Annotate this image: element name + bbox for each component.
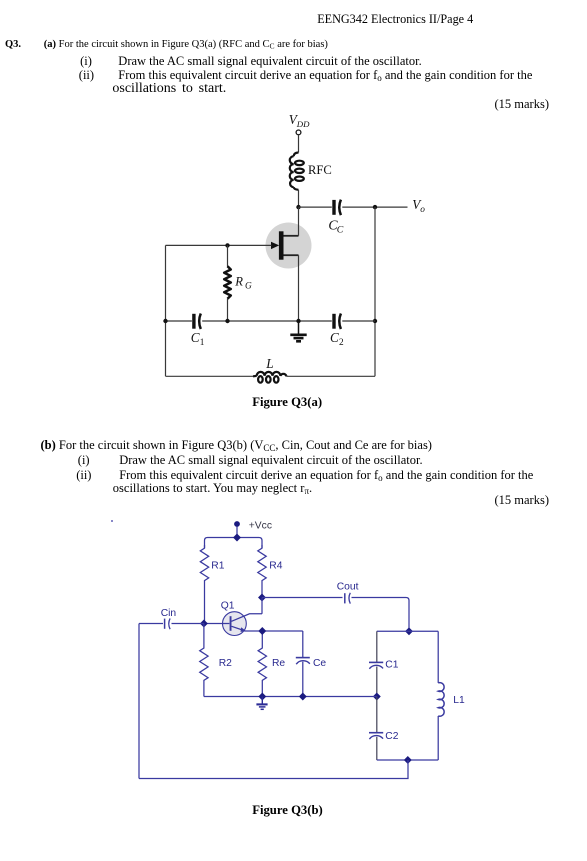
- resistor Re: [258, 631, 266, 697]
- wire tank bottom rail: [377, 759, 438, 761]
- header text: [317, 13, 473, 25]
- svg-text:1: 1: [200, 338, 205, 348]
- node gate junction: [225, 243, 229, 247]
- wire left rail: [138, 624, 140, 779]
- resistor RG: [224, 245, 231, 321]
- svg-text:Cin: Cin: [161, 608, 177, 619]
- label L: [265, 356, 273, 371]
- wire C2 bottom lead: [376, 737, 378, 760]
- wire VDD to RFC: [298, 135, 300, 152]
- svg-text:L1: L1: [453, 695, 465, 706]
- transistor Q JFET: [266, 207, 312, 321]
- resistor R2: [200, 624, 208, 697]
- svg-text:Cout: Cout: [337, 582, 359, 593]
- (b)(ii): [76, 469, 91, 482]
- svg-text:Q1: Q1: [221, 601, 235, 612]
- (a) intro line: [44, 40, 328, 51]
- node tank top junction: [405, 627, 413, 635]
- svg-text:C: C: [191, 330, 200, 345]
- wire gate: [166, 244, 272, 246]
- node bottom left junction: [163, 319, 167, 323]
- capacitor C1: [369, 662, 383, 668]
- svg-text:L: L: [265, 356, 273, 371]
- node drain junction: [296, 205, 300, 209]
- label VDD: [289, 112, 310, 129]
- wire collector riser: [261, 598, 263, 614]
- (b)(i): [78, 454, 90, 467]
- wire tank top rail: [377, 630, 438, 632]
- node output junction: [373, 205, 377, 209]
- svg-text:+Vcc: +Vcc: [249, 520, 272, 531]
- label C1: [385, 660, 398, 671]
- wire Ce top lead: [302, 631, 304, 657]
- wire RFC to drain node: [298, 190, 300, 207]
- stray ink speck: [111, 520, 113, 522]
- wire left rail: [165, 245, 167, 376]
- wire top rail: [205, 538, 263, 549]
- wire Cc to Vo: [342, 206, 407, 208]
- figure a caption: [252, 396, 322, 409]
- transistor Q1: [223, 612, 303, 636]
- label Re: [272, 658, 285, 669]
- svg-text:C1: C1: [385, 660, 398, 671]
- svg-text:o: o: [420, 205, 425, 215]
- node source junction: [296, 319, 300, 323]
- svg-text:G: G: [245, 282, 252, 292]
- svg-text:Re: Re: [272, 658, 285, 669]
- svg-text:R1: R1: [211, 561, 224, 572]
- (b) marks: [495, 494, 550, 507]
- wire L rail right: [287, 375, 375, 377]
- node Vcc rail junction: [233, 534, 241, 542]
- node tank bottom junction: [404, 756, 412, 764]
- wire base to Cin: [172, 623, 204, 625]
- wire C2 top lead: [376, 697, 378, 733]
- label R4: [269, 561, 282, 572]
- wire C1 bottom lead: [376, 667, 378, 697]
- node collector junction: [258, 594, 266, 602]
- wire base: [204, 623, 230, 625]
- wire Cout to tank: [352, 598, 410, 632]
- node base junction: [200, 620, 208, 628]
- Q3 label: [5, 40, 21, 51]
- label R1: [211, 561, 224, 572]
- label C2: [330, 330, 344, 348]
- label Vo: [412, 197, 425, 215]
- node VDD terminal: [296, 130, 301, 135]
- label RFC: [308, 163, 332, 177]
- label Cin: [161, 608, 177, 619]
- node +Vcc terminal: [234, 521, 240, 527]
- capacitor C2: [334, 314, 341, 330]
- wire collector node to Cout: [262, 597, 343, 599]
- svg-text:2: 2: [339, 338, 344, 348]
- label Cc: [328, 218, 343, 236]
- wire emitter bottom rail: [204, 696, 377, 698]
- node right rail bottom junction: [373, 319, 377, 323]
- wire drain node to Cc: [299, 206, 332, 208]
- wire bottom rail right: [342, 320, 375, 322]
- resistor R4: [258, 545, 266, 598]
- capacitor Ce: [296, 658, 310, 665]
- (a)(i): [80, 55, 92, 68]
- label C1: [191, 330, 205, 348]
- (a) marks: [495, 98, 550, 111]
- svg-text:R4: R4: [269, 561, 282, 572]
- capacitor Cc: [334, 200, 341, 216]
- (b) intro line: [41, 439, 432, 453]
- label RG: [234, 275, 252, 292]
- label Q1: [221, 601, 235, 612]
- label C2: [385, 731, 398, 742]
- svg-text:Ce: Ce: [313, 658, 326, 669]
- capacitor C1: [194, 314, 201, 330]
- label Ce: [313, 658, 326, 669]
- node Ce bottom junction: [299, 693, 307, 701]
- label L1: [453, 695, 465, 706]
- wire Ce bottom lead: [302, 662, 304, 697]
- svg-text:C2: C2: [385, 731, 398, 742]
- svg-text:DD: DD: [296, 119, 310, 129]
- wire bottom rail left: [166, 320, 192, 322]
- capacitor Cin: [165, 618, 171, 629]
- node RG bottom junction: [225, 319, 229, 323]
- svg-text:R2: R2: [219, 658, 232, 669]
- ground: [256, 697, 267, 710]
- label R2: [219, 658, 232, 669]
- label +Vcc: [249, 520, 272, 531]
- wire L rail left: [166, 375, 254, 377]
- svg-text:RFC: RFC: [308, 163, 332, 177]
- svg-text:R: R: [234, 275, 243, 289]
- inductor L: [253, 372, 287, 383]
- resistor R1: [200, 545, 208, 624]
- figure b caption: [252, 804, 323, 817]
- wire Vcc stem: [236, 527, 238, 538]
- wire Cin to left rail: [139, 623, 163, 625]
- ground: [290, 321, 306, 341]
- wire bottom rail mid: [202, 320, 332, 322]
- node emitter junction: [258, 627, 266, 635]
- inductor L1: [438, 631, 444, 760]
- capacitor C2: [369, 733, 383, 739]
- capacitor Cout: [345, 593, 351, 604]
- (a)(ii): [79, 69, 94, 82]
- wire bottom loop: [139, 760, 408, 779]
- wire right rail: [374, 207, 376, 376]
- wire C1 top lead: [376, 631, 378, 662]
- svg-text:C: C: [337, 225, 344, 236]
- inductor RFC: [290, 153, 304, 190]
- svg-text:C: C: [330, 330, 339, 345]
- label Cout: [337, 582, 359, 593]
- node tank mid junction: [373, 693, 381, 701]
- node ground junction: [258, 693, 266, 701]
